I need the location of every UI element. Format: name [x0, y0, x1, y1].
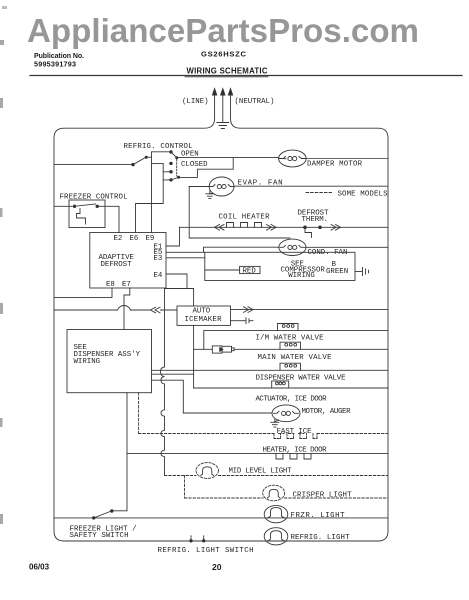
svg-text:WIRING SCHEMATIC: WIRING SCHEMATIC [187, 67, 268, 76]
RED terminal box [240, 266, 260, 273]
heater ice door resistor [276, 453, 311, 459]
icemaker plug stub [231, 320, 246, 322]
damper motor M1 [279, 150, 307, 167]
wire V4 to switch contact [114, 510, 128, 512]
svg-text:HEATER, ICE DOOR: HEATER, ICE DOOR [263, 446, 328, 454]
svg-text:E3: E3 [154, 255, 163, 263]
svg-text:CLOSED: CLOSED [181, 161, 208, 169]
svg-text:MAIN WATER VALVE: MAIN WATER VALVE [258, 354, 333, 362]
svg-text:ACTUATOR, ICE DOOR: ACTUATOR, ICE DOOR [256, 396, 328, 404]
svg-text:MOTOR, AUGER: MOTOR, AUGER [302, 408, 352, 416]
actuator ice door coil [272, 381, 289, 388]
arrow left chevrons [215, 225, 225, 231]
svg-text:MID LEVEL LIGHT: MID LEVEL LIGHT [229, 467, 293, 475]
arrow chevrons on output [244, 307, 254, 313]
freezer light switch arm [94, 511, 111, 518]
svg-text:GREEN: GREEN [326, 268, 348, 276]
freezer control box [69, 200, 105, 228]
svg-text:OPEN: OPEN [181, 150, 199, 158]
switch arm pole 1 [171, 152, 177, 158]
ground lead arrow [222, 90, 224, 96]
refrig light lamp on bottom rail [264, 528, 288, 545]
wire E8 to left border [54, 288, 112, 298]
line lead arrow [214, 90, 216, 96]
scan noise marks [0, 6, 7, 524]
frzr light lamp [264, 506, 288, 523]
contact stubs from bus [163, 172, 169, 180]
svg-text:FAST ICE: FAST ICE [277, 428, 313, 436]
motor auger [272, 405, 300, 422]
wire: into evap fan from riser [189, 186, 209, 188]
freezer light switch contacts [92, 516, 95, 519]
icemaker output rail [231, 309, 389, 311]
svg-text:FRZR. LIGHT: FRZR. LIGHT [291, 512, 346, 520]
svg-text:RED: RED [243, 268, 257, 276]
fast ice resistor dashed [274, 434, 317, 439]
wire E5 to cond fan [166, 247, 279, 252]
svg-text:REFRIG. LIGHT: REFRIG. LIGHT [291, 534, 351, 542]
auger motor ground [275, 420, 279, 422]
icemaker feed rail from border [54, 306, 177, 311]
svg-text:WIRING: WIRING [74, 358, 101, 366]
svg-text:GS26HSZC: GS26HSZC [201, 50, 247, 59]
dispenser water valve rail [152, 369, 389, 371]
auto icemaker box [177, 306, 231, 325]
switch arm pole 2 [171, 177, 178, 180]
wire E7 down to dispenser box [124, 288, 130, 330]
arrow right chevrons [267, 225, 277, 231]
riser: evap fan feed down to defrost rail [189, 187, 290, 239]
mid level light lamp dashed [196, 463, 218, 479]
refrig control entry switch arm [133, 157, 146, 164]
svg-text:E8: E8 [106, 281, 115, 289]
svg-text:SOME MODELS: SOME MODELS [338, 191, 389, 199]
mid level light rail dashed [165, 475, 389, 477]
compressor wiring box [205, 252, 355, 280]
I/M water valve coil [278, 324, 299, 331]
svg-text:WIRING: WIRING [288, 272, 315, 280]
actuator rail [194, 387, 388, 389]
adaptive defrost control board [90, 233, 166, 289]
arrow right after thermostat [331, 225, 341, 231]
header rule [30, 75, 462, 77]
svg-text:SAFETY SWITCH: SAFETY SWITCH [70, 532, 129, 540]
freezer control arm [75, 204, 96, 206]
inline connector pair [212, 346, 222, 353]
icemaker bottom drop [193, 325, 195, 388]
svg-text:REFRIG. LIGHT SWITCH: REFRIG. LIGHT SWITCH [158, 547, 254, 555]
defrost rail with arrows [180, 226, 389, 228]
svg-text:THERM.: THERM. [302, 216, 329, 224]
defrost thermostat [303, 226, 307, 230]
svg-text:COIL HEATER: COIL HEATER [219, 213, 271, 221]
wire cond fan to right border [306, 246, 388, 248]
node: refrig control input dot [131, 163, 134, 166]
heater ice door rail [127, 452, 388, 454]
crisper dashed drop [184, 476, 186, 499]
dispenser water valve coil [280, 363, 301, 370]
wire E1 to defrost rail [166, 227, 180, 246]
wire E3 to compressor box [166, 257, 205, 259]
arrow chevrons on icemaker rail [151, 307, 161, 313]
V4 drop from dispenser box [126, 393, 128, 511]
supply ground symbol [222, 96, 224, 122]
cond fan motor [279, 239, 306, 255]
dashed mechanical linkage [176, 160, 178, 177]
wire: closed contact staircase [180, 158, 233, 178]
wire: freezer control to E2 [97, 206, 119, 232]
svg-text:20: 20 [212, 562, 222, 572]
evap fan motor [209, 177, 234, 196]
main water valve coil [280, 342, 301, 349]
evap fan ground [210, 191, 214, 194]
svg-text:I/M WATER VALVE: I/M WATER VALVE [256, 335, 325, 343]
svg-text:CRISPER LIGHT: CRISPER LIGHT [293, 492, 353, 500]
dashed drop to fast ice [138, 393, 140, 434]
svg-text:ICEMAKER: ICEMAKER [185, 316, 223, 324]
svg-text:DAMPER MOTOR: DAMPER MOTOR [307, 160, 363, 168]
crisper light lamp dashed [263, 485, 285, 501]
svg-text:E9: E9 [146, 235, 155, 243]
some models dashed note [306, 192, 333, 194]
svg-text:06/03: 06/03 [29, 563, 50, 572]
fast ice rail dashed [139, 433, 388, 435]
stub to actuator rail [152, 373, 194, 375]
I/M water valve rail [204, 331, 388, 350]
crisper light rail dashed [185, 497, 389, 499]
wire E4 to icemaker [166, 274, 194, 306]
stub to auger rail [152, 380, 184, 413]
svg-text:COND. FAN: COND. FAN [308, 249, 348, 257]
svg-text:DISPENSER WATER VALVE: DISPENSER WATER VALVE [256, 375, 347, 383]
svg-text:AUTO: AUTO [193, 308, 211, 316]
freezer light switch rail [54, 517, 388, 519]
wire to RED terminal [205, 269, 240, 271]
neutral lead arrow [230, 90, 232, 96]
wire: left border to refrig control [54, 164, 133, 166]
svg-text:5995391793: 5995391793 [34, 59, 76, 68]
svg-text:(NEUTRAL): (NEUTRAL) [235, 98, 275, 106]
wire: evap fan to right border [234, 185, 388, 187]
svg-text:E6: E6 [130, 235, 139, 243]
auger motor rail [183, 412, 272, 414]
V2 bus top from E4 node [165, 288, 188, 290]
refrig control contacts [169, 150, 172, 153]
freezer control contacts [73, 205, 76, 208]
main water valve rail [194, 348, 388, 350]
compressor ground [355, 271, 362, 273]
wire: border to freezer control [54, 205, 72, 207]
svg-text:EVAP. FAN: EVAP. FAN [238, 179, 283, 187]
see dispenser assy wiring box [67, 330, 152, 393]
svg-text:AppliancePartsPros.com: AppliancePartsPros.com [27, 12, 419, 49]
svg-text:E4: E4 [154, 272, 163, 280]
coil heater resistor [227, 223, 262, 228]
refrig light switch on bottom border [191, 536, 204, 541]
wire: open contact to damper motor [178, 157, 279, 159]
svg-text:DEFROST: DEFROST [101, 261, 133, 269]
wire: damper motor to right border [306, 158, 388, 160]
schematic outer border with supply entry [54, 95, 388, 541]
svg-text:E2: E2 [114, 235, 123, 243]
svg-text:(LINE): (LINE) [182, 98, 209, 106]
freezer control staircase symbol [77, 209, 86, 225]
wire: switch to E9 drop and upper contact [147, 152, 169, 157]
